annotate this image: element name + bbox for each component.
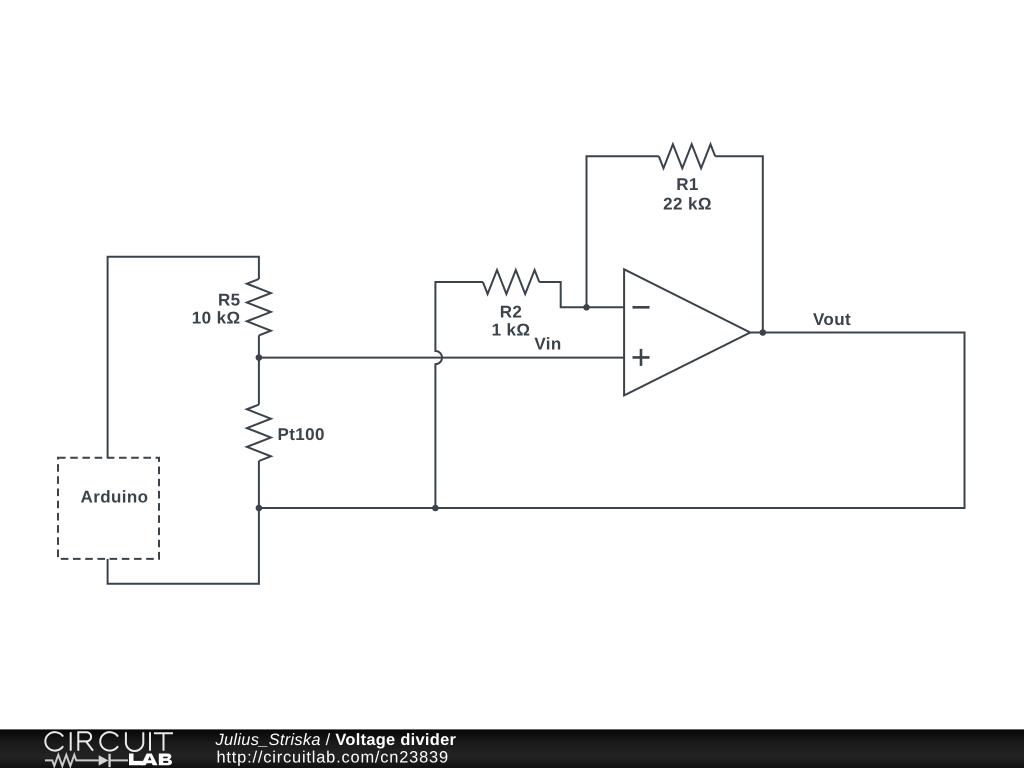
- resistor R5: [247, 279, 271, 335]
- svg-text:R5: R5: [218, 291, 241, 310]
- logo letter C: [45, 732, 63, 750]
- logo diode symbol: [99, 754, 111, 767]
- op-amp plus sign: [633, 349, 650, 366]
- logo CIRCUIT wordmark: [45, 732, 173, 751]
- svg-text:R1: R1: [676, 175, 699, 194]
- svg-text:Julius_Striska / Voltage divid: Julius_Striska / Voltage divider: [215, 731, 457, 749]
- logo resistor zigzag and diode line: [45, 755, 128, 766]
- wire: bottom net from Pt100 junction right, up and left to op-amp output: [259, 333, 965, 509]
- node: output junction: [760, 329, 767, 336]
- logo letter I: [70, 732, 72, 751]
- svg-text:R2: R2: [500, 303, 523, 322]
- wire: R5 bottom lead: [258, 335, 260, 357]
- wire: R1 left leg from inverting input junction up: [587, 156, 659, 307]
- logo letter I: [149, 732, 151, 751]
- wire: Arduino bottom lead down right and up to bottom net: [108, 508, 259, 584]
- logo letter L: [129, 754, 143, 766]
- logo LAB lettering: [129, 754, 172, 766]
- svg-text:Vout: Vout: [813, 310, 851, 329]
- node: bottom junction at Pt100/Arduino: [256, 505, 263, 512]
- svg-text:Arduino: Arduino: [81, 488, 149, 507]
- op-amp U1: [624, 269, 750, 395]
- node: divider junction at R5/Pt100: [256, 354, 263, 361]
- component Arduino dashed box: [58, 458, 159, 559]
- op-amp minus sign: [633, 306, 650, 309]
- svg-text:22 kΩ: 22 kΩ: [663, 195, 712, 214]
- resistor R2: [483, 270, 539, 294]
- logo letter R: [78, 732, 93, 751]
- wire: R2 left leg with hop over Vin wire: [435, 282, 483, 508]
- wire: Pt100 bottom lead: [258, 461, 260, 508]
- wire: R2 right lead stepping down to inverting input: [539, 282, 624, 307]
- resistor R1: [659, 144, 715, 168]
- logo letter A: [141, 754, 158, 766]
- wire: Pt100 top lead: [258, 358, 260, 405]
- wire: Vin net from divider junction to op-amp + input: [259, 357, 624, 359]
- wire: R1 right leg down to output: [715, 156, 763, 332]
- wire: Arduino top lead up and across to R5 top: [108, 257, 259, 458]
- resistor Pt100: [247, 405, 271, 461]
- svg-text:Pt100: Pt100: [278, 425, 325, 444]
- logo letter T: [154, 733, 173, 751]
- logo letter C: [100, 732, 118, 750]
- svg-text:Vin: Vin: [534, 335, 561, 354]
- node: junction of R2 leg and bottom net: [432, 505, 439, 512]
- svg-text:1 kΩ: 1 kΩ: [492, 321, 531, 340]
- logo letter U: [126, 732, 143, 751]
- footer bar: [0, 729, 1024, 768]
- svg-text:10 kΩ: 10 kΩ: [192, 309, 241, 328]
- svg-text:http://circuitlab.com/cn23839: http://circuitlab.com/cn23839: [217, 749, 449, 767]
- node: inverting input junction: [583, 304, 590, 311]
- logo letter B: [159, 754, 172, 766]
